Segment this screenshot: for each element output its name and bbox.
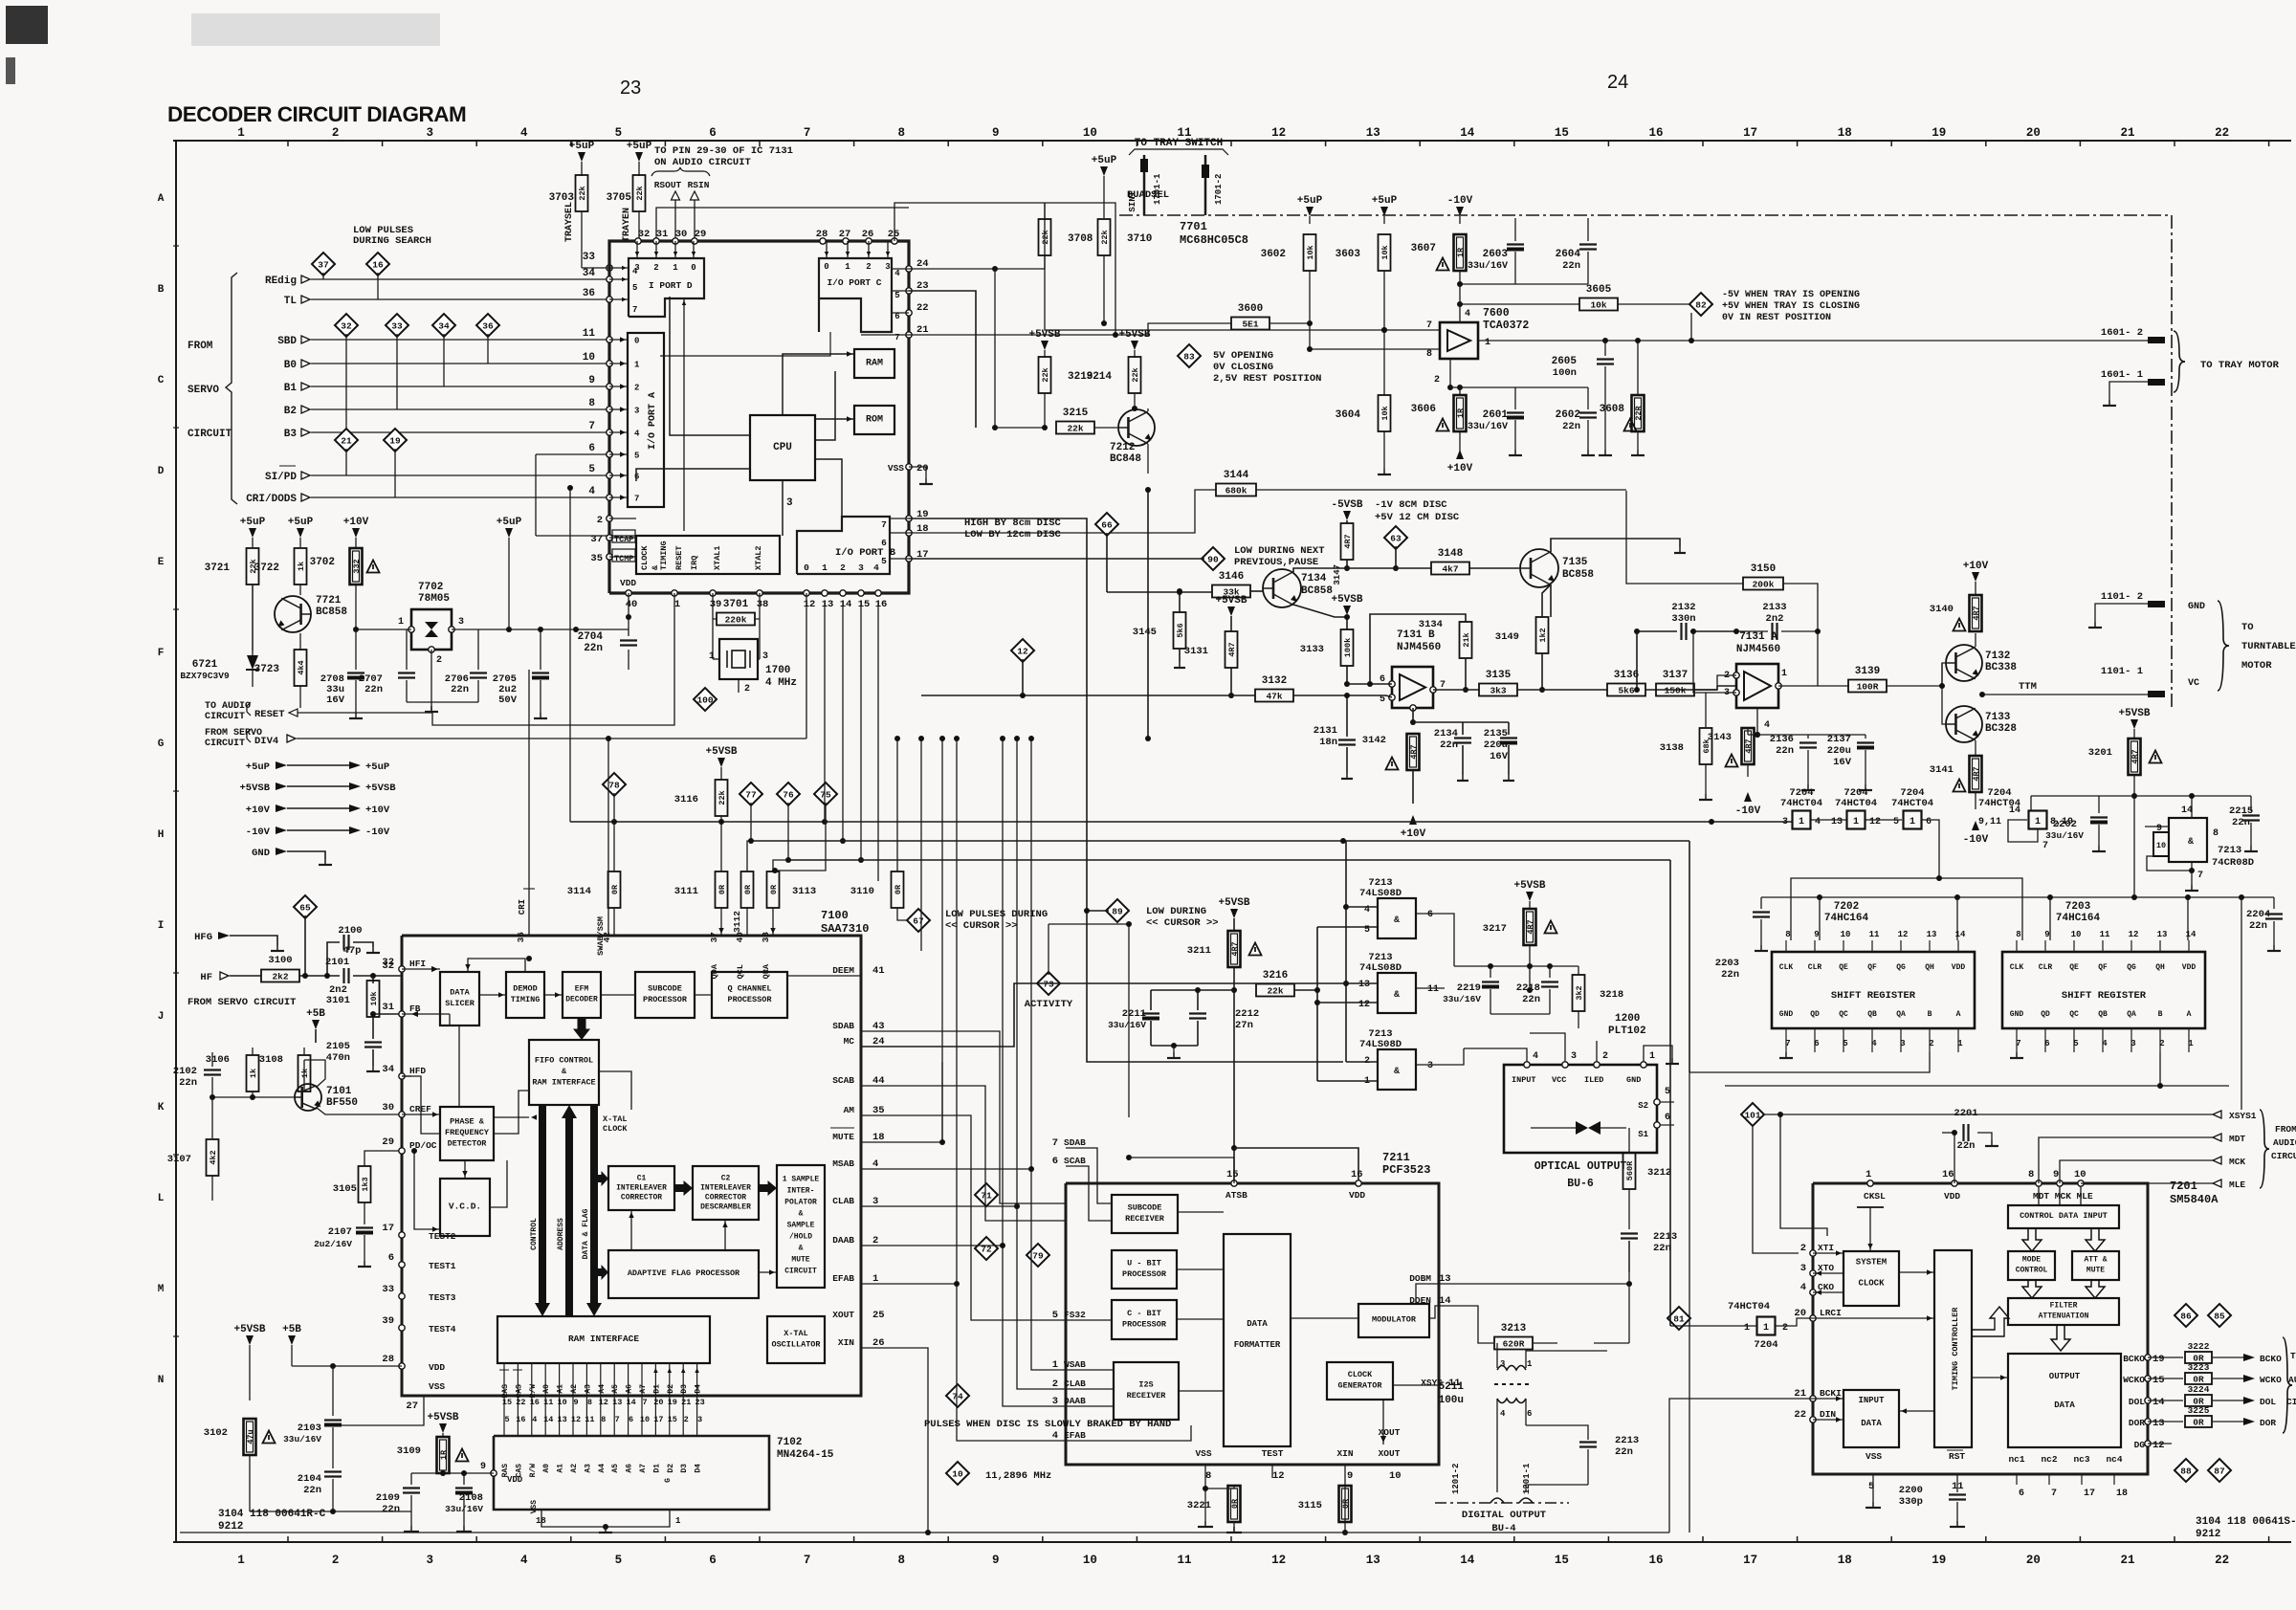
svg-text:DAAB: DAAB <box>1064 1396 1086 1406</box>
svg-text:3135: 3135 <box>1486 670 1512 681</box>
svg-text:8: 8 <box>601 1415 606 1424</box>
svg-text:3107: 3107 <box>167 1154 191 1165</box>
svg-text:QA: QA <box>2127 1010 2136 1019</box>
svg-text:8: 8 <box>2028 1169 2034 1180</box>
svg-text:0V CLOSING: 0V CLOSING <box>1213 362 1273 373</box>
svg-text:PULSES WHEN DISC IS SLOWLY BRA: PULSES WHEN DISC IS SLOWLY BRAKED BY HAN… <box>924 1419 1171 1430</box>
svg-text:1: 1 <box>1781 669 1787 679</box>
svg-text:1k: 1k <box>300 1069 310 1078</box>
diamond 34 <box>432 314 455 337</box>
svg-text:3108: 3108 <box>259 1054 283 1066</box>
efab wire <box>1066 1425 1191 1441</box>
timing to input data arrow <box>1899 1410 1934 1412</box>
diamond 79 <box>1027 1244 1049 1267</box>
svg-text:+5uP: +5uP <box>1092 155 1117 166</box>
svg-text:22n: 22n <box>1562 421 1580 432</box>
wire to 3605 <box>1460 303 1579 305</box>
svg-text:1201-1: 1201-1 <box>1522 1463 1532 1494</box>
svg-text:2: 2 <box>1052 1378 1058 1390</box>
svg-text:B1: B1 <box>284 383 298 394</box>
svg-text:27: 27 <box>839 229 851 240</box>
svg-text:3201: 3201 <box>2088 747 2112 759</box>
svg-text:VSS: VSS <box>1865 1451 1882 1462</box>
svg-text:22n: 22n <box>1776 745 1794 757</box>
svg-text:10: 10 <box>1083 1554 1097 1567</box>
svg-text:6: 6 <box>629 1415 633 1424</box>
wire inv d vdd <box>2030 796 2032 810</box>
svg-text:3142: 3142 <box>1362 735 1386 746</box>
svg-text:24: 24 <box>1607 72 1628 93</box>
svg-text:A0: A0 <box>542 1464 551 1473</box>
svg-text:BC858: BC858 <box>316 607 347 618</box>
svg-text:8: 8 <box>1785 930 1790 939</box>
resistor 3723 <box>299 633 301 651</box>
svg-text:&: & <box>1394 990 1400 1001</box>
svg-text:DIGITAL OUTPUT: DIGITAL OUTPUT <box>1462 1510 1546 1521</box>
svg-text:30: 30 <box>382 1102 394 1114</box>
optical output box PLT102 <box>1504 1065 1657 1153</box>
svg-text:A3: A3 <box>584 1464 592 1473</box>
svg-text:2: 2 <box>866 262 871 272</box>
svg-text:22k: 22k <box>1100 230 1110 244</box>
svg-text:12: 12 <box>599 1398 608 1407</box>
svg-text:3214: 3214 <box>1087 371 1113 383</box>
svg-text:<< CURSOR >>: << CURSOR >> <box>945 920 1018 932</box>
portB pin14 drop <box>842 601 844 841</box>
svg-text:14: 14 <box>2186 930 2197 939</box>
svg-text:3: 3 <box>786 497 793 509</box>
svg-text:21: 21 <box>2120 1554 2134 1567</box>
svg-text:43: 43 <box>872 1021 885 1032</box>
svg-text:+5VSB: +5VSB <box>1218 897 1249 909</box>
svg-text:7100: 7100 <box>821 909 849 922</box>
svg-text:DIV4: DIV4 <box>254 736 278 747</box>
svg-text:F: F <box>158 648 165 659</box>
svg-text:VSS: VSS <box>429 1381 445 1392</box>
svg-text:3: 3 <box>426 126 433 140</box>
svg-text:-10V: -10V <box>1735 805 1761 817</box>
svg-text:7102: 7102 <box>777 1437 802 1448</box>
svg-text:7101: 7101 <box>326 1086 352 1097</box>
svg-text:19: 19 <box>2152 1354 2165 1365</box>
svg-text:D3: D3 <box>680 1464 689 1473</box>
svg-text:+5uP: +5uP <box>240 517 266 528</box>
svg-text:37: 37 <box>709 932 719 943</box>
svg-text:3k3: 3k3 <box>1490 686 1506 696</box>
pin 29 PDOC <box>399 1148 405 1154</box>
svg-text:CLK: CLK <box>2010 963 2024 972</box>
svg-text:+5VSB: +5VSB <box>1331 594 1362 606</box>
brace turntable <box>2218 601 2229 646</box>
svg-text:VC: VC <box>2188 678 2199 689</box>
svg-text:7: 7 <box>615 1415 620 1424</box>
svg-text:19: 19 <box>389 436 401 447</box>
svg-text:13: 13 <box>1831 817 1843 827</box>
pins top <box>1867 1180 1873 1186</box>
svg-text:22k: 22k <box>1067 424 1083 434</box>
block INPUT DATA <box>1843 1390 1899 1447</box>
svg-text:15: 15 <box>502 1398 512 1407</box>
power +10V below 3606 <box>1459 431 1461 457</box>
block ATT MUTE <box>2072 1251 2119 1280</box>
svg-text:1: 1 <box>1763 1323 1769 1334</box>
svg-text:K: K <box>158 1102 165 1114</box>
zener 6721 <box>252 584 254 651</box>
wire iled up <box>1596 1041 1598 1062</box>
svg-text:LOW DURING NEXT: LOW DURING NEXT <box>1234 545 1325 557</box>
svg-text:2: 2 <box>597 515 603 526</box>
svg-text:VSS: VSS <box>530 1500 539 1514</box>
gnd stubs <box>355 713 357 718</box>
block ADAPTIVE FLAG <box>608 1250 759 1298</box>
border ruler bottom <box>173 1541 2291 1543</box>
long mesh wire y899 <box>788 859 1670 861</box>
svg-text:CRI/DODS: CRI/DODS <box>246 494 297 505</box>
svg-text:3133: 3133 <box>1300 644 1324 655</box>
svg-text:3: 3 <box>1427 1061 1433 1071</box>
diamond 88 <box>2175 1459 2197 1482</box>
block OUTPUT DATA <box>2008 1354 2121 1447</box>
resistor 3214 <box>1134 350 1136 358</box>
svg-text:CONTROL: CONTROL <box>530 1218 539 1250</box>
svg-text:2213: 2213 <box>1653 1231 1677 1243</box>
wire +10V to reg <box>356 629 411 630</box>
block CONTROL DATA INPUT <box>2008 1205 2119 1228</box>
plt pin1 gnd loop <box>1644 1046 1672 1062</box>
transistor 7721 BC858 <box>275 596 311 632</box>
svg-text:IRQ: IRQ <box>690 556 699 570</box>
svg-text:MN4264-15: MN4264-15 <box>777 1449 834 1461</box>
svg-text:15: 15 <box>1555 126 1569 140</box>
svg-text:22k: 22k <box>635 186 645 200</box>
saa internal wires row1 <box>479 994 506 996</box>
svg-text:AUDI: AUDI <box>2288 1375 2296 1385</box>
pin 25 top <box>892 238 897 244</box>
svg-text:BCKO: BCKO <box>2260 1354 2282 1364</box>
svg-text:1k3: 1k3 <box>361 1177 370 1191</box>
block SUBCODE RECEIVER <box>1112 1195 1178 1233</box>
diamond 85 <box>2208 1304 2231 1327</box>
svg-text:CIRCUI: CIRCUI <box>2271 1151 2296 1161</box>
svg-text:DAAB: DAAB <box>832 1235 854 1246</box>
svg-text:HFI: HFI <box>409 959 426 969</box>
svg-text:+5uP: +5uP <box>1372 195 1398 207</box>
svg-text:CLAB: CLAB <box>832 1196 854 1206</box>
svg-text:+5VSB: +5VSB <box>2118 708 2150 719</box>
svg-text:32: 32 <box>341 321 352 332</box>
svg-text:33u/16V: 33u/16V <box>1108 1020 1146 1030</box>
svg-text:&: & <box>1394 1067 1400 1077</box>
resistor 3600 5E1 <box>1231 318 1269 330</box>
svg-text:22n: 22n <box>2249 920 2267 932</box>
svg-text:1R: 1R <box>1456 247 1466 257</box>
sec wires <box>1496 1399 1498 1473</box>
svg-text:RECEIVER: RECEIVER <box>1127 1391 1167 1400</box>
IC 7211 PCF3523 outline <box>1066 1183 1439 1465</box>
diamond 71 <box>975 1183 998 1206</box>
svg-text:4k4: 4k4 <box>297 660 306 674</box>
svg-text:11: 11 <box>1427 984 1439 995</box>
lrci wires <box>1670 1325 1757 1327</box>
transistor 7135 BC858 <box>1520 549 1558 587</box>
svg-text:4R7: 4R7 <box>1227 642 1237 656</box>
svg-text:+5V 12 CM DISC: +5V 12 CM DISC <box>1375 512 1460 523</box>
svg-text:3605: 3605 <box>1586 284 1612 296</box>
svg-text:6: 6 <box>709 126 717 140</box>
svg-text:DG: DG <box>2134 1440 2146 1450</box>
svg-text:2132: 2132 <box>1671 602 1695 613</box>
svg-text:5V OPENING: 5V OPENING <box>1213 350 1273 362</box>
svg-text:4: 4 <box>1500 1409 1506 1419</box>
svg-text:83: 83 <box>1183 352 1195 363</box>
svg-text:CONTROL DATA INPUT: CONTROL DATA INPUT <box>2020 1211 2108 1221</box>
svg-text:CAS: CAS <box>515 1384 523 1399</box>
block FILTER ATTENUATION <box>2008 1298 2119 1325</box>
diamond 37 <box>312 253 335 276</box>
resistor 3141 <box>1970 756 1982 792</box>
svg-text:7204: 7204 <box>1754 1339 1777 1351</box>
svg-text:0: 0 <box>824 262 828 272</box>
svg-text:74HCT04: 74HCT04 <box>1835 798 1877 809</box>
resistor 3721 <box>252 538 254 547</box>
svg-text:SAMPLE: SAMPLE <box>787 1221 815 1229</box>
portC right pins <box>906 266 912 272</box>
tray switch stubs <box>1143 155 1146 215</box>
feedback loop 3134 <box>1370 614 1466 684</box>
svg-text:2: 2 <box>1782 1323 1788 1334</box>
svg-text:6721: 6721 <box>192 659 218 671</box>
diamond 10 <box>946 1462 969 1485</box>
svg-text:12: 12 <box>1358 1000 1370 1010</box>
pin 31 top <box>653 238 659 244</box>
svg-text:2104: 2104 <box>298 1473 321 1485</box>
data slicer to phase det <box>458 1026 460 1107</box>
svg-text:12: 12 <box>1271 1554 1286 1567</box>
svg-text:XTAL1: XTAL1 <box>713 545 722 570</box>
svg-text:RAM INTERFACE: RAM INTERFACE <box>532 1078 595 1088</box>
svg-text:3607: 3607 <box>1411 243 1436 254</box>
svg-text:3224: 3224 <box>2188 1384 2210 1395</box>
svg-text:41: 41 <box>872 965 885 977</box>
svg-text:8: 8 <box>2213 828 2219 839</box>
svg-text:TEST1: TEST1 <box>429 1261 456 1271</box>
svg-text:CLK: CLK <box>1779 963 1794 972</box>
pin8 row <box>1412 708 1414 722</box>
transistor 7212 BC848 <box>1118 409 1155 446</box>
svg-text:3602: 3602 <box>1261 249 1286 260</box>
svg-text:74: 74 <box>952 1392 963 1402</box>
svg-text:4: 4 <box>1764 720 1770 731</box>
svg-text:4k2: 4k2 <box>209 1150 218 1164</box>
svg-text:24: 24 <box>916 258 929 270</box>
svg-text:A6: A6 <box>626 1464 634 1473</box>
phase det wires <box>494 1116 529 1118</box>
transistor 7101 BF550 <box>295 1084 321 1111</box>
svg-text:78M05: 78M05 <box>418 593 450 605</box>
timing to output <box>1972 1377 2008 1378</box>
svg-text:EFM: EFM <box>575 984 589 993</box>
svg-text:WCKO: WCKO <box>2123 1375 2145 1385</box>
mdt wires <box>2038 1186 2040 1205</box>
svg-text:14: 14 <box>626 1398 635 1407</box>
svg-text:DATA: DATA <box>1247 1319 1268 1329</box>
svg-text:3137: 3137 <box>1663 670 1688 681</box>
svg-text:XTAL2: XTAL2 <box>754 545 763 570</box>
bus CLAB <box>861 1206 1066 1389</box>
svg-text:TO: TO <box>2290 1351 2296 1361</box>
svg-text:1: 1 <box>1649 1051 1655 1062</box>
svg-text:CIRCUIT: CIRCUIT <box>205 739 245 749</box>
svg-text:L: L <box>158 1193 165 1204</box>
svg-text:33: 33 <box>391 321 403 332</box>
svg-text:3: 3 <box>1800 1263 1806 1274</box>
cri down to demod <box>526 956 532 961</box>
svg-text:-10V: -10V <box>1963 834 1989 846</box>
7134 emitter to node <box>1293 605 1347 617</box>
svg-text:2: 2 <box>436 655 442 666</box>
svg-text:A1: A1 <box>557 1464 565 1473</box>
svg-text:TTM: TTM <box>2019 681 2037 693</box>
resistor 3216 22k <box>1256 984 1294 997</box>
svg-text:DOR: DOR <box>2260 1418 2276 1428</box>
long mesh wire y879 <box>751 840 1689 842</box>
wire CREF from emitter <box>317 1108 402 1114</box>
vss pin wire <box>1204 1465 1206 1489</box>
svg-text:-5V WHEN TRAY IS OPENING: -5V WHEN TRAY IS OPENING <box>1722 290 1860 300</box>
svg-text:QF: QF <box>1867 963 1877 972</box>
resistor 3106 <box>247 1055 259 1092</box>
resistor 3703 <box>581 162 583 176</box>
audio in MDT <box>2213 1134 2221 1141</box>
svg-text:21: 21 <box>681 1398 691 1407</box>
svg-text:1k: 1k <box>297 562 306 571</box>
svg-text:3: 3 <box>1500 1359 1505 1369</box>
svg-text:34: 34 <box>583 268 596 279</box>
diamond 77 <box>740 783 762 805</box>
svg-text:QG: QG <box>2127 963 2136 972</box>
svg-text:6: 6 <box>709 1554 717 1567</box>
pin 26 top <box>866 238 872 244</box>
resistor 3702 <box>355 538 357 547</box>
svg-text:2102: 2102 <box>173 1066 197 1077</box>
svg-text:3104 118 00641R-C: 3104 118 00641R-C <box>218 1509 326 1520</box>
pin 30 top <box>673 238 678 244</box>
svg-text:2133: 2133 <box>1762 602 1786 613</box>
svg-text:0R: 0R <box>2193 1418 2204 1428</box>
svg-text:19: 19 <box>1932 126 1946 140</box>
svg-text:150k: 150k <box>1665 686 1687 696</box>
svg-text:PLT102: PLT102 <box>1608 1026 1646 1037</box>
svg-text:D2: D2 <box>667 1464 675 1473</box>
resistor 3143 <box>1742 728 1755 764</box>
svg-text:0R: 0R <box>717 884 727 894</box>
svg-text:+10V: +10V <box>1963 561 1989 572</box>
svg-text:9: 9 <box>588 375 595 386</box>
svg-text:3149: 3149 <box>1495 631 1519 643</box>
svg-text:2604: 2604 <box>1556 249 1581 260</box>
resistor 3608 <box>1632 395 1645 431</box>
svg-text:INTER-: INTER- <box>787 1186 815 1195</box>
svg-text:20: 20 <box>1794 1308 1806 1319</box>
svg-text:13: 13 <box>2152 1418 2165 1429</box>
wire reg out <box>452 629 629 630</box>
dram wire D3 <box>682 1363 684 1436</box>
svg-text:13: 13 <box>557 1415 566 1424</box>
svg-text:3102: 3102 <box>204 1427 228 1439</box>
mdt route <box>2039 1137 2152 1183</box>
svg-text:4 MHz: 4 MHz <box>765 677 797 689</box>
svg-text:VSS: VSS <box>1195 1448 1211 1459</box>
svg-text:GENERATOR: GENERATOR <box>1338 1380 1383 1390</box>
svg-text:6: 6 <box>1665 1113 1670 1123</box>
svg-text:32: 32 <box>638 229 651 240</box>
svg-text:620R: 620R <box>1503 1339 1525 1350</box>
svg-text:38: 38 <box>757 599 769 610</box>
svg-text:11,2896 MHz: 11,2896 MHz <box>985 1470 1051 1482</box>
resistor 3201 <box>2133 729 2135 739</box>
resistor 3708 <box>1044 203 1046 218</box>
svg-text:AM: AM <box>844 1105 855 1115</box>
svg-text:36: 36 <box>516 932 526 943</box>
resistor 3604 <box>1383 330 1385 395</box>
wire 2132 left <box>1636 631 1638 690</box>
svg-text:&: & <box>799 1209 804 1218</box>
svg-text:D4: D4 <box>695 1464 703 1473</box>
block C-BIT <box>1112 1300 1177 1339</box>
block DATA SLICER <box>440 972 479 1026</box>
svg-text:31: 31 <box>656 229 669 240</box>
cap 2101 2n2 <box>342 968 344 983</box>
svg-text:82: 82 <box>1695 300 1707 311</box>
svg-text:1: 1 <box>1910 817 1915 827</box>
svg-text:12: 12 <box>1017 647 1028 657</box>
svg-text:12: 12 <box>804 599 816 610</box>
svg-text:18: 18 <box>2116 1489 2128 1499</box>
svg-text:FILTER: FILTER <box>2050 1301 2078 1310</box>
plt pins top <box>1524 1062 1530 1068</box>
svg-text:1700: 1700 <box>765 665 790 676</box>
diamond 16 <box>366 253 389 276</box>
svg-text:U - BIT: U - BIT <box>1127 1258 1161 1268</box>
svg-text:C: C <box>158 375 165 386</box>
svg-text:7202: 7202 <box>1834 901 1859 913</box>
svg-text:27: 27 <box>406 1400 418 1412</box>
resistor 3211 <box>1233 918 1235 931</box>
resistor 3110 0R <box>892 871 904 908</box>
svg-text:POLATOR: POLATOR <box>784 1198 817 1206</box>
svg-text:CIRCUIT: CIRCUIT <box>188 429 232 440</box>
svg-text:2219: 2219 <box>1457 982 1481 994</box>
svg-text:3702: 3702 <box>310 557 335 568</box>
svg-text:33u/16V: 33u/16V <box>1443 994 1481 1004</box>
bus efm fifo <box>573 1018 590 1040</box>
block Q CHANNEL PROCESSOR <box>712 972 787 1018</box>
svg-text:&: & <box>2188 837 2194 848</box>
svg-text:3104 118 00641S-C: 3104 118 00641S-C <box>2196 1516 2296 1528</box>
svg-text:100n: 100n <box>1553 367 1577 379</box>
block I/O PORT B <box>797 517 890 574</box>
svg-text:ATT &: ATT & <box>2084 1255 2107 1264</box>
svg-text:7135: 7135 <box>1562 557 1588 568</box>
svg-text:75: 75 <box>820 790 831 801</box>
vertical CRI <box>528 670 530 936</box>
diamond 63 <box>1384 526 1407 549</box>
svg-text:ON AUDIO CIRCUIT: ON AUDIO CIRCUIT <box>654 157 751 168</box>
wire 90 <box>909 558 1204 560</box>
svg-text:A7: A7 <box>639 1384 648 1394</box>
svg-text:BZX79C3V9: BZX79C3V9 <box>180 671 230 681</box>
xin wire <box>1344 1465 1346 1533</box>
